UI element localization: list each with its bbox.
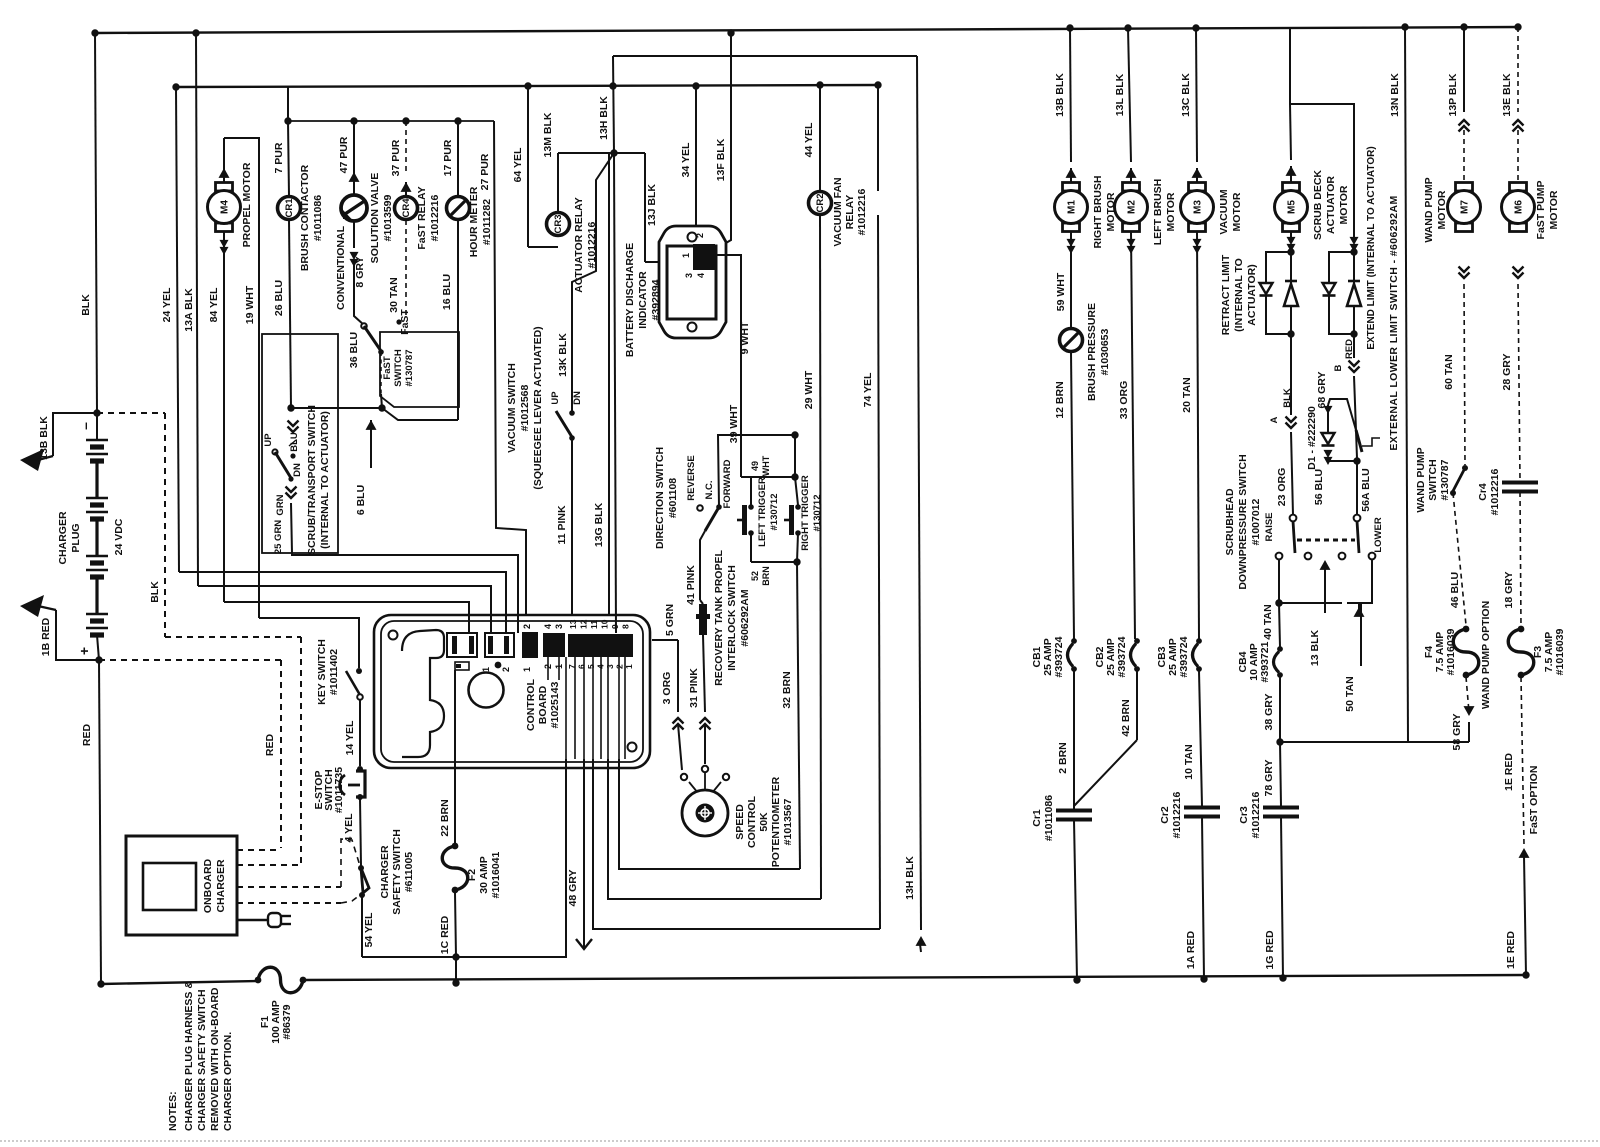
fuse F4 7.5 AMP <box>1453 629 1479 675</box>
svg-text:37 PUR: 37 PUR <box>390 139 402 176</box>
node 1G RED <box>1279 974 1286 981</box>
motor M6 FaST pump motor <box>1517 27 1519 112</box>
wire 58 GRY dashed lower <box>1466 677 1469 712</box>
svg-text:12 BRN: 12 BRN <box>1054 381 1066 418</box>
motor M5 scrub deck actuator motor <box>1289 27 1291 104</box>
svg-text:SCRUB/TRANSPORT SWITCH: SCRUB/TRANSPORT SWITCH <box>306 405 318 555</box>
wire 13H BLK long <box>917 56 921 930</box>
node solution valve top <box>350 117 357 124</box>
breaker CB3 25 AMP <box>1193 644 1199 667</box>
svg-text:RED: RED <box>1344 339 1355 359</box>
wire 13G BLK <box>608 153 610 633</box>
breaker CB4 10 AMP <box>1275 599 1282 606</box>
svg-text:#393721: #393721 <box>1259 641 1271 682</box>
svg-text:BRN: BRN <box>761 566 771 586</box>
svg-text:64 YEL: 64 YEL <box>512 147 524 182</box>
svg-text:GRN: GRN <box>275 494 286 515</box>
svg-text:LEFT BRUSH: LEFT BRUSH <box>1152 179 1164 246</box>
svg-text:#1012216: #1012216 <box>1489 468 1501 515</box>
svg-text:#1011735: #1011735 <box>333 767 345 813</box>
board connector 3 <box>522 632 538 658</box>
node M7 top <box>1460 23 1467 30</box>
svg-text:59 WHT: 59 WHT <box>1055 272 1067 311</box>
svg-text:3 ORG: 3 ORG <box>661 672 673 705</box>
svg-text:BATTERY DISCHARGE: BATTERY DISCHARGE <box>624 243 636 357</box>
wire 25 GRN feed <box>292 553 518 633</box>
svg-text:BLK: BLK <box>80 294 92 316</box>
svg-text:D1 - #222290: D1 - #222290 <box>1306 406 1318 470</box>
svg-text:CHARGER PLUG HARNESS &: CHARGER PLUG HARNESS & <box>183 981 195 1131</box>
svg-text:30 TAN: 30 TAN <box>388 277 400 312</box>
svg-text:58 GRY: 58 GRY <box>1451 714 1463 751</box>
svg-text:M3: M3 <box>1193 200 1204 214</box>
svg-text:M6: M6 <box>1514 200 1525 214</box>
svg-text:28 GRY: 28 GRY <box>1501 354 1513 391</box>
wire 59 WHT <box>1070 232 1072 328</box>
svg-text:8 GRY: 8 GRY <box>354 256 366 287</box>
svg-text:13M BLK: 13M BLK <box>542 112 554 157</box>
svg-text:#611005: #611005 <box>403 852 415 892</box>
brush pressure switch #1030653 <box>1060 329 1083 352</box>
node battery plus <box>95 656 102 663</box>
svg-text:MOTOR: MOTOR <box>1338 185 1350 224</box>
wire dashed BLK from battery minus <box>97 412 165 414</box>
svg-text:60 TAN: 60 TAN <box>1443 354 1455 389</box>
svg-text:M5: M5 <box>1287 200 1298 214</box>
wire 16 BLU <box>457 220 459 420</box>
svg-text:(INTERNAL TO ACTUATOR): (INTERNAL TO ACTUATOR) <box>319 411 331 549</box>
page edge <box>0 1140 1600 1142</box>
capacitor Cr1 #1011086 <box>1073 808 1075 810</box>
relay CR4 FaST relay <box>405 121 407 172</box>
motor M3 vacuum motor <box>1196 28 1197 162</box>
svg-text:49: 49 <box>750 461 760 471</box>
svg-text:RAISE: RAISE <box>1264 512 1275 541</box>
wire 40 TAN <box>1278 559 1280 601</box>
wire 49 WHT <box>741 476 795 478</box>
wire A BLK <box>1290 334 1292 415</box>
svg-text:#1012216: #1012216 <box>856 188 868 235</box>
svg-text:F2: F2 <box>466 869 478 881</box>
svg-text:PLUG: PLUG <box>70 523 82 552</box>
relay CR2 vacuum fan relay <box>809 192 832 215</box>
svg-text:#130787: #130787 <box>1439 459 1451 500</box>
svg-text:POTENTIOMETER: POTENTIOMETER <box>770 776 782 867</box>
hour meter <box>457 121 459 196</box>
extend limit diode network <box>1350 248 1357 255</box>
wire 52 BRN <box>750 533 752 562</box>
wire RED to bottom bus <box>99 660 101 984</box>
svg-text:#1011086: #1011086 <box>1043 795 1055 841</box>
svg-text:RED: RED <box>264 733 276 756</box>
wire M5 bottom <box>1290 232 1292 240</box>
svg-text:SWITCH: SWITCH <box>393 349 404 387</box>
wire lower contact link <box>1279 602 1342 604</box>
wire 84 YEL feed <box>224 602 469 633</box>
svg-text:4 YEL: 4 YEL <box>343 813 355 843</box>
svg-text:8: 8 <box>621 624 631 629</box>
svg-text:#393724: #393724 <box>1116 636 1128 677</box>
svg-text:BLK: BLK <box>1282 388 1293 408</box>
wire 1A RED <box>1202 817 1204 979</box>
relay CR3 actuator relay <box>547 213 570 236</box>
svg-text:CR1: CR1 <box>284 198 295 218</box>
wire 1B RED stub with arrow <box>56 610 99 660</box>
direction switch <box>697 505 703 511</box>
svg-text:ACTUATOR: ACTUATOR <box>1325 176 1337 234</box>
svg-text:19 WHT: 19 WHT <box>244 285 256 324</box>
svg-text:5: 5 <box>586 664 596 669</box>
wire 54 YEL <box>361 895 363 957</box>
battery 24 VDC <box>76 413 108 660</box>
svg-text:1G RED: 1G RED <box>1264 930 1276 970</box>
motor M1 right brush motor <box>1070 28 1071 162</box>
solution valve <box>353 121 355 178</box>
wire top supply bus BLK <box>95 27 1520 33</box>
wire 1E RED dashed <box>1521 677 1524 845</box>
svg-text:CONVENTIONAL: CONVENTIONAL <box>335 225 347 310</box>
svg-text:#1016041: #1016041 <box>490 851 502 898</box>
wire 20 TAN <box>1197 232 1199 639</box>
svg-text:13B BLK: 13B BLK <box>38 416 50 460</box>
svg-text:UP: UP <box>263 433 274 447</box>
svg-text:13L BLK: 13L BLK <box>1114 73 1126 116</box>
svg-text:#1011086: #1011086 <box>312 195 324 241</box>
svg-text:(INTERNAL TO: (INTERNAL TO <box>1233 258 1245 332</box>
svg-text:VACUUM: VACUUM <box>1218 189 1230 235</box>
wire 26 BLU <box>289 220 291 408</box>
svg-text:RELAY: RELAY <box>844 195 856 230</box>
wire 13 BLK arrow <box>1320 560 1331 570</box>
svg-text:#392894: #392894 <box>650 279 662 320</box>
wire 48 GRY arrow stub <box>583 759 585 949</box>
wire 13B BLK stub with arrow <box>53 413 97 456</box>
svg-text:CHARGER: CHARGER <box>215 859 227 913</box>
node hour meter top <box>454 117 461 124</box>
svg-text:CHARGER: CHARGER <box>57 511 69 565</box>
svg-text:6: 6 <box>577 664 587 669</box>
wire 8 GRY <box>353 221 355 248</box>
svg-text:11: 11 <box>589 620 599 629</box>
svg-text:50 TAN: 50 TAN <box>1344 676 1356 711</box>
svg-text:46 BLU: 46 BLU <box>1449 572 1461 608</box>
svg-text:1: 1 <box>681 253 691 258</box>
wire 24 YEL <box>176 87 179 572</box>
svg-text:#130712: #130712 <box>769 494 780 531</box>
svg-text:30 AMP: 30 AMP <box>478 856 490 894</box>
wire 74 YEL corner <box>593 759 880 929</box>
svg-text:41 PINK: 41 PINK <box>685 565 697 605</box>
svg-text:13F BLK: 13F BLK <box>715 138 727 181</box>
svg-text:MOTOR: MOTOR <box>1165 192 1177 231</box>
svg-text:INTERLOCK SWITCH: INTERLOCK SWITCH <box>726 565 738 671</box>
wire 74 YEL return <box>878 215 880 929</box>
svg-text:2: 2 <box>695 233 705 238</box>
wire 22 BRN <box>454 670 456 843</box>
svg-text:10: 10 <box>600 619 610 629</box>
wire 2 BRN <box>1073 671 1075 808</box>
wire 52 BRN corner <box>619 759 800 869</box>
recovery tank propel interlock switch <box>700 600 703 604</box>
svg-text:10 TAN: 10 TAN <box>1183 744 1195 779</box>
svg-text:DN: DN <box>292 463 303 477</box>
svg-text:SAFETY SWITCH: SAFETY SWITCH <box>391 829 403 915</box>
svg-text:13G BLK: 13G BLK <box>593 502 605 547</box>
svg-text:33 ORG: 33 ORG <box>1118 381 1130 420</box>
svg-text:MOTOR: MOTOR <box>1231 192 1243 231</box>
svg-text:13B BLK: 13B BLK <box>1054 73 1066 117</box>
node top-left <box>91 29 98 36</box>
svg-text:22 BRN: 22 BRN <box>439 799 451 836</box>
node F2 bottom <box>452 979 459 986</box>
svg-text:47 PUR: 47 PUR <box>338 136 350 173</box>
svg-text:RED: RED <box>81 723 93 746</box>
capacitor Cr2 #1012216 <box>1184 806 1220 810</box>
svg-text:–: – <box>77 422 93 430</box>
svg-text:FaST RELAY: FaST RELAY <box>416 186 428 249</box>
svg-text:SCRUBHEAD: SCRUBHEAD <box>1224 488 1236 556</box>
svg-text:13K BLK: 13K BLK <box>557 333 569 377</box>
svg-text:44 YEL: 44 YEL <box>803 122 815 157</box>
svg-text:31 PINK: 31 PINK <box>688 668 700 708</box>
wire loop top <box>613 55 917 57</box>
svg-text:3: 3 <box>605 664 615 669</box>
svg-text:12: 12 <box>579 619 589 629</box>
svg-text:M2: M2 <box>1127 200 1138 214</box>
scrubhead downpressure switch contacts <box>1290 515 1297 522</box>
svg-text:38 GRY: 38 GRY <box>1263 694 1275 731</box>
svg-text:3: 3 <box>554 624 564 629</box>
node CR1 top <box>284 117 291 124</box>
svg-text:13 BLK: 13 BLK <box>1309 630 1321 667</box>
wire 30 TAN dashed <box>405 220 407 318</box>
svg-text:+: + <box>76 647 92 655</box>
wire 60 TAN dashed <box>1459 267 1470 279</box>
svg-text:#1016039: #1016039 <box>1554 628 1566 675</box>
svg-text:CHARGER: CHARGER <box>379 845 391 899</box>
svg-text:CR3: CR3 <box>553 214 564 233</box>
wire M5 top bracket to extend limit <box>1290 104 1354 240</box>
svg-text:36 BLU: 36 BLU <box>348 332 360 368</box>
FaST switch box <box>380 332 459 407</box>
wire 6 BLU stub <box>370 420 372 468</box>
svg-text:N.C.: N.C. <box>704 481 715 500</box>
svg-text:ACTUATOR): ACTUATOR) <box>1246 264 1258 325</box>
svg-text:SOLUTION VALVE: SOLUTION VALVE <box>369 173 381 264</box>
svg-text:DIRECTION SWITCH: DIRECTION SWITCH <box>654 447 666 549</box>
svg-text:#1012568: #1012568 <box>519 384 531 431</box>
svg-text:4: 4 <box>696 273 706 278</box>
wire 3 ORG <box>677 640 679 712</box>
svg-text:VACUUM FAN: VACUUM FAN <box>832 177 844 246</box>
wire 4 YEL <box>360 799 361 866</box>
board connector 4 <box>543 633 565 657</box>
svg-text:17 PUR: 17 PUR <box>442 139 454 176</box>
motor M4 propel motor <box>223 138 225 168</box>
wire 9 WHT <box>715 255 741 477</box>
svg-text:DOWNPRESSURE SWITCH: DOWNPRESSURE SWITCH <box>1237 454 1249 589</box>
control board #1025143 <box>374 615 650 768</box>
relay CR1 brush contactor <box>288 121 289 196</box>
svg-text:CR4: CR4 <box>401 198 412 218</box>
wire 19 WHT feed to key switch <box>259 618 359 668</box>
svg-text:2 BRN: 2 BRN <box>1057 742 1069 774</box>
svg-text:EXTERNAL LOWER LIMIT SWITCH -: EXTERNAL LOWER LIMIT SWITCH - #606292AM <box>1388 195 1400 450</box>
wire 42 BRN <box>1136 671 1138 740</box>
svg-text:13A BLK: 13A BLK <box>183 288 195 332</box>
svg-text:13E BLK: 13E BLK <box>1501 73 1513 117</box>
svg-text:DN: DN <box>572 391 583 405</box>
wire 10 TAN <box>1199 671 1202 806</box>
svg-text:BOARD: BOARD <box>537 685 549 724</box>
svg-text:M4: M4 <box>220 200 231 214</box>
svg-text:#86379: #86379 <box>281 1004 293 1039</box>
node M2 top <box>1124 24 1131 31</box>
node battery minus <box>93 409 100 416</box>
svg-text:6 BLU: 6 BLU <box>355 485 367 515</box>
svg-text:#1013599: #1013599 <box>382 194 394 241</box>
svg-text:MOTOR: MOTOR <box>1548 190 1560 229</box>
wire 56A BLU lower <box>1356 461 1358 515</box>
wire 23 ORG <box>1291 432 1293 515</box>
wires dashed charger to safety switch <box>237 849 281 851</box>
svg-text:MOTOR: MOTOR <box>1436 190 1448 229</box>
wire 29 WHT return <box>820 215 821 899</box>
svg-text:1C RED: 1C RED <box>439 915 451 954</box>
svg-text:CHARGER SAFETY SWITCH: CHARGER SAFETY SWITCH <box>196 989 208 1131</box>
svg-text:FaST: FaST <box>399 309 411 335</box>
wire 84 YEL <box>223 232 225 602</box>
svg-text:13H BLK: 13H BLK <box>598 96 610 140</box>
svg-text:18 GRY: 18 GRY <box>1503 572 1515 609</box>
svg-text:39 WHT: 39 WHT <box>728 404 740 443</box>
svg-text:REMOVED WITH ON-BOARD: REMOVED WITH ON-BOARD <box>209 987 221 1131</box>
wire 12 BRN <box>1071 352 1074 639</box>
wire 1C RED <box>455 893 456 957</box>
wire 13J BLK <box>644 153 646 262</box>
svg-text:#393724: #393724 <box>1053 636 1065 677</box>
diode D1 #222290 <box>1324 406 1333 414</box>
svg-text:A: A <box>1269 416 1280 423</box>
board connector 1 <box>447 633 477 657</box>
fuse F3 7.5 AMP <box>1508 629 1534 675</box>
svg-text:50K: 50K <box>758 812 770 832</box>
wire 13N BLK <box>1405 27 1408 742</box>
svg-text:40 TAN: 40 TAN <box>1262 604 1274 639</box>
svg-text:13H BLK: 13H BLK <box>904 856 916 900</box>
svg-text:#1011282: #1011282 <box>481 199 493 245</box>
FaST switch blade conventional/FaST <box>361 323 367 329</box>
wire 24 YEL feed <box>179 572 506 633</box>
wire 18 GRY dashed <box>1520 492 1521 627</box>
node M1 top <box>1066 24 1073 31</box>
wire Cr1 to bus <box>1074 820 1077 980</box>
svg-text:1E RED: 1E RED <box>1505 931 1517 969</box>
svg-text:23 ORG: 23 ORG <box>1276 468 1288 507</box>
svg-text:29 WHT: 29 WHT <box>803 370 815 409</box>
node bottom-left <box>97 980 104 987</box>
svg-text:68 GRY: 68 GRY <box>1316 372 1328 409</box>
svg-text:84 YEL: 84 YEL <box>208 287 220 322</box>
svg-text:EXTEND LIMIT (INTERNAL TO ACTU: EXTEND LIMIT (INTERNAL TO ACTUATOR) <box>1366 146 1377 349</box>
svg-text:BRUSH CONTACTOR: BRUSH CONTACTOR <box>299 164 311 271</box>
svg-text:27 PUR: 27 PUR <box>479 153 491 190</box>
svg-text:SPEED: SPEED <box>734 804 746 840</box>
svg-text:Cr2: Cr2 <box>1159 806 1171 824</box>
capacitor Cr3 #1012216 <box>1263 806 1299 810</box>
wire 28 GRY dashed <box>1513 267 1524 279</box>
svg-text:WHT: WHT <box>761 455 771 476</box>
board connector 5 main <box>568 634 633 657</box>
svg-text:13P BLK: 13P BLK <box>1447 73 1459 116</box>
svg-text:56 BLU: 56 BLU <box>1313 469 1325 505</box>
svg-text:HOUR METER: HOUR METER <box>468 186 480 257</box>
scrub/transport switch box <box>262 334 338 553</box>
svg-text:WAND PUMP: WAND PUMP <box>1415 447 1427 512</box>
wire 44 YEL <box>819 85 821 191</box>
svg-text:Cr3: Cr3 <box>1238 806 1250 824</box>
svg-text:KEY SWITCH: KEY SWITCH <box>316 639 328 705</box>
svg-text:42 BRN: 42 BRN <box>1120 699 1132 736</box>
svg-text:3: 3 <box>684 273 694 278</box>
svg-text:#130787: #130787 <box>404 350 415 387</box>
node CR4 top <box>402 117 409 124</box>
wire M4 top bracket 19 WHT <box>224 138 259 618</box>
wire bottom bus continue <box>303 975 1526 980</box>
svg-text:UP: UP <box>550 391 561 405</box>
svg-text:RIGHT BRUSH: RIGHT BRUSH <box>1092 176 1104 249</box>
wire 68 GRY bracket <box>1328 399 1356 430</box>
svg-text:VACUUM SWITCH: VACUUM SWITCH <box>506 363 518 453</box>
wire 13H BLK upper <box>613 56 614 153</box>
board connector pin wires <box>565 657 567 759</box>
svg-text:CONTROL: CONTROL <box>746 795 758 847</box>
svg-text:CR2: CR2 <box>815 193 826 212</box>
wire 31 PINK <box>703 635 705 712</box>
svg-text:B: B <box>1333 364 1344 371</box>
svg-text:M1: M1 <box>1067 200 1078 214</box>
svg-text:20 TAN: 20 TAN <box>1181 377 1193 412</box>
svg-text:#1012216: #1012216 <box>1250 791 1262 838</box>
external lower limit switch blade <box>1356 430 1362 452</box>
svg-text:1: 1 <box>522 667 532 672</box>
svg-text:24 YEL: 24 YEL <box>161 287 173 322</box>
svg-text:#601108: #601108 <box>667 478 679 518</box>
svg-text:13N BLK: 13N BLK <box>1389 73 1401 117</box>
svg-text:34 YEL: 34 YEL <box>680 142 692 177</box>
svg-text:54 YEL: 54 YEL <box>363 912 375 947</box>
wire 33 ORG <box>1131 232 1135 639</box>
svg-text:Cr4: Cr4 <box>1477 483 1489 501</box>
wire 13A BLK <box>196 33 198 586</box>
svg-text:#1011402: #1011402 <box>328 649 340 695</box>
svg-text:#1025143: #1025143 <box>549 681 561 728</box>
svg-text:ONBOARD: ONBOARD <box>202 858 214 913</box>
wire 11 PINK <box>571 438 573 633</box>
retract limit diode network <box>1287 248 1294 255</box>
svg-text:25 GRN: 25 GRN <box>273 520 284 554</box>
wire to 16 BLU junction <box>382 408 458 420</box>
svg-text:LEFT TRIGGER: LEFT TRIGGER <box>757 477 768 547</box>
svg-text:#1013567: #1013567 <box>782 798 794 845</box>
svg-text:26 BLU: 26 BLU <box>273 280 285 316</box>
svg-text:#1007012: #1007012 <box>1250 498 1262 545</box>
svg-text:56A BLU: 56A BLU <box>1360 468 1372 511</box>
node 39 WHT <box>791 431 798 438</box>
motor M7 wand pump motor <box>1463 27 1465 112</box>
fuse F1 100 AMP <box>258 967 303 993</box>
wire 13K BLK path to vacuum switch <box>572 153 614 413</box>
